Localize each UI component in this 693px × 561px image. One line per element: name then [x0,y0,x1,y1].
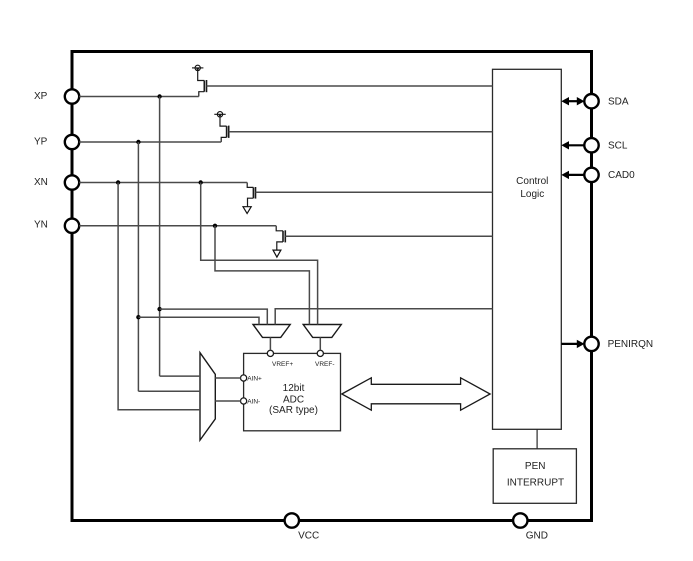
svg-text:Logic: Logic [520,189,544,200]
node XN branch 1 [116,180,120,184]
wire XP pin to Q1 source [79,96,199,98]
svg-text:12bit: 12bit [283,383,305,394]
channel bar of Q4 [282,231,284,242]
mux M1 input selector (trapezoid) [200,353,215,440]
pin SDA [584,94,629,108]
pin CAD0 [584,168,635,182]
wire VREF+ mux third input to control logic [275,309,492,325]
svg-text:YP: YP [34,137,48,148]
pin AIN- of ADC [241,398,261,406]
wire XN pin to Q3 [79,182,247,184]
svg-text:AIN-: AIN- [247,399,260,406]
svg-text:YN: YN [34,219,48,230]
wire YP to VREF+ mux input [138,317,259,324]
wire gate Q1 to control logic [207,85,493,87]
transistor Q4 YN low-side switch [273,226,285,257]
transistor Q2 YP high-side switch [214,112,228,142]
svg-text:AIN+: AIN+ [247,376,262,383]
transistor Q1 XP high-side switch [192,65,207,96]
control terminal symbol of Q2 [217,112,222,117]
node XN branch 2 [199,180,203,184]
svg-text:VCC: VCC [298,531,319,542]
ground symbol of Q4 [273,250,281,257]
wire mux M1 to AIN- [215,400,240,402]
wire YP pin to Q2 source [79,141,221,143]
block U3 PEN INTERRUPT [493,449,576,504]
block U1 12bit ADC (SAR type) [244,353,341,430]
wire mux M3 to VREF- [319,337,321,350]
arrow ADC-ControlLogic bus (double headed) [342,378,490,410]
svg-text:SDA: SDA [608,97,629,108]
wire XN to VREF- mux input [201,183,318,325]
pin SCL [584,138,628,152]
arrow PENIRQN output [561,340,584,348]
wire Q4 source to ground [277,242,283,250]
wire Q2 source to YP line [221,137,226,142]
node YP branch [136,140,140,144]
wire YN to VREF- mux input [215,226,309,325]
arrow SCL input [561,141,584,149]
ground symbol of Q3 [243,207,251,214]
svg-text:GND: GND [526,531,548,542]
svg-text:SCL: SCL [608,141,628,152]
wire YN pin to Q4 [79,225,276,227]
block U2 Control Logic [493,69,562,429]
node YN branch [213,224,217,228]
gate bar of Q4 [284,230,286,242]
channel bar of Q2 [226,126,228,137]
svg-text:(SAR type): (SAR type) [269,405,318,416]
wire mux M2 to VREF+ [269,337,271,350]
wire XN line jog to Q3 channel [247,183,253,188]
wire XN vertical branch to mux M1 [118,183,200,410]
pin XN [34,175,79,189]
svg-text:CAD0: CAD0 [608,170,635,181]
transistor Q3 XN low-side switch [243,183,256,214]
svg-text:XP: XP [34,91,48,102]
gate bar of Q3 [255,187,257,199]
pin VREF- of ADC [315,350,335,368]
gate bar of Q1 [206,80,208,92]
pin XP [34,89,79,103]
wire XP vertical branch [159,97,161,377]
wire XP to VREF+ mux input [160,309,268,324]
svg-text:VREF+: VREF+ [272,361,293,368]
mux M3 VREF- selector (trapezoid) [303,325,341,338]
arrow SDA bidirectional [561,97,584,105]
node XP branch [157,94,161,98]
wire YN line jog to Q4 channel [276,226,283,231]
node XP to VREF+ mux [157,307,161,311]
wire Q1 control to channel [198,71,205,81]
pin VREF+ of ADC [267,350,293,368]
svg-text:ADC: ADC [283,394,304,405]
channel bar of Q3 [252,187,254,198]
arrow CAD0 input [561,171,584,179]
wire YP vertical branch [137,142,139,391]
chip boundary [72,52,592,521]
wire YP to mux M1 input [138,390,200,392]
pin VCC [285,513,320,541]
node YP to VREF+ mux [136,315,140,319]
gate bar of Q2 [228,126,230,138]
pin AIN+ of ADC [241,375,263,383]
wire gate Q4 to control logic [285,235,492,237]
wire XP to mux M1 input [160,375,200,377]
pin PENIRQN [584,337,653,351]
svg-text:PENIRQN: PENIRQN [608,339,654,350]
wire control-logic to pen-interrupt [536,429,538,449]
svg-text:XN: XN [34,177,48,188]
wire gate Q2 to control logic [229,131,493,133]
pin GND [513,513,548,541]
mux M2 VREF+ selector (trapezoid) [253,325,290,338]
svg-text:Control: Control [516,176,548,187]
wire Q2 control to channel [220,117,227,126]
channel bar of Q1 [203,81,205,92]
wire mux M1 to AIN+ [215,377,240,379]
svg-text:VREF-: VREF- [315,361,335,368]
svg-text:INTERRUPT: INTERRUPT [507,478,564,489]
wire gate Q3 to control logic [256,191,493,193]
wire Q3 source to ground [248,198,254,207]
pin YN [34,219,79,233]
control terminal symbol of Q1 [195,65,200,70]
svg-text:PEN: PEN [525,461,546,472]
pin YP [34,135,79,149]
wire Q1 source to XP line [199,92,205,97]
